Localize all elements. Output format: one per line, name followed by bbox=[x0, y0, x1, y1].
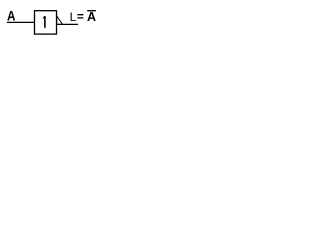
svg-text:L: L bbox=[70, 10, 77, 24]
svg-text:=: = bbox=[77, 10, 84, 24]
svg-text:A: A bbox=[87, 10, 96, 24]
svg-text:A: A bbox=[7, 8, 15, 24]
